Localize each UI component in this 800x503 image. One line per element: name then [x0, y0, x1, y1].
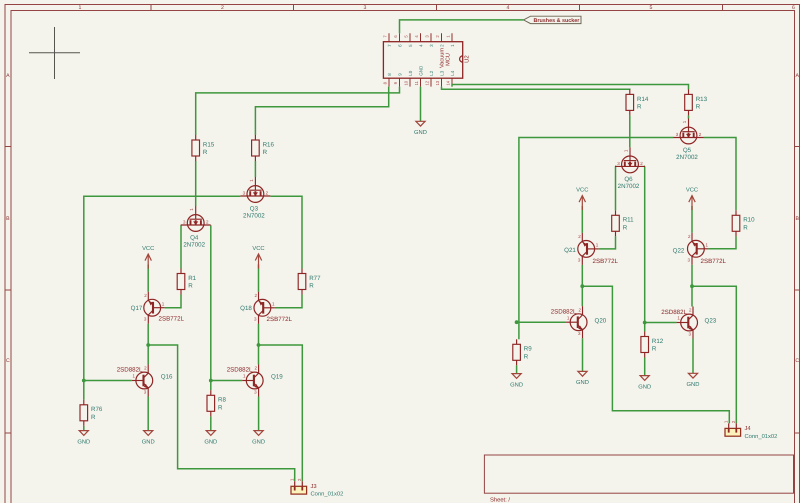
svg-text:GND: GND	[638, 383, 651, 390]
wire Q16 emitter to GND	[147, 397, 149, 431]
resistor R16	[252, 135, 275, 161]
wire U2 pin13 to R14	[442, 87, 630, 90]
wire R1 to Q17 base	[165, 295, 181, 308]
svg-text:R: R	[91, 414, 96, 421]
wire U2 pin11 to GND	[420, 87, 422, 122]
transistor Q17 2SB772L	[131, 292, 185, 324]
wire VCC to Q17 emitter	[147, 265, 149, 292]
junction Q20 base node	[515, 320, 519, 324]
svg-text:GND: GND	[252, 438, 265, 445]
transistor Q4 2N7002	[181, 206, 211, 249]
transistor Q5 2N7002	[674, 119, 704, 162]
svg-text:J4: J4	[745, 426, 752, 432]
svg-text:R13: R13	[696, 96, 708, 103]
wire Q6 source to Q23 base junction	[644, 166, 646, 322]
svg-text:Brushes & sucker: Brushes & sucker	[534, 18, 581, 24]
wire Q5 source to R10	[704, 138, 737, 211]
power GND R76	[77, 431, 90, 446]
wire Q22 collector to Q23 collector	[691, 265, 693, 307]
svg-text:J3: J3	[311, 483, 317, 490]
junction Q23 base node	[643, 321, 647, 325]
wire VCC to Q21 emitter	[581, 206, 583, 233]
svg-text:GND: GND	[576, 379, 589, 386]
wire R77 to Q18 base	[275, 295, 302, 308]
svg-text:R15: R15	[203, 141, 215, 148]
resistor R8	[207, 390, 226, 416]
svg-text:R14: R14	[637, 96, 649, 103]
svg-text:14: 14	[446, 80, 451, 85]
svg-text:R10: R10	[743, 217, 755, 224]
wire VCC to Q18 emitter	[258, 264, 260, 291]
svg-text:A: A	[795, 73, 799, 79]
power GND R8	[204, 431, 217, 446]
sheet origin cross marker	[29, 27, 80, 79]
wire U2 pin8 to R16	[255, 87, 388, 135]
resistor R11	[612, 210, 634, 236]
wire Q21 collector to Q20 collector	[581, 265, 583, 306]
svg-text:5: 5	[650, 5, 653, 11]
svg-text:3: 3	[364, 5, 367, 11]
resistor R77	[298, 269, 321, 295]
resistor R1	[177, 269, 196, 295]
svg-text:R11: R11	[623, 217, 634, 224]
wire R13 to Q5 gate	[688, 115, 690, 118]
wire junction to R76	[83, 381, 85, 400]
svg-text:A: A	[6, 73, 10, 79]
svg-text:GND: GND	[510, 381, 523, 388]
svg-text:C: C	[6, 358, 10, 364]
svg-text:GND: GND	[687, 381, 700, 388]
svg-text:B: B	[795, 216, 799, 222]
wire junction to R8	[210, 381, 212, 391]
power VCC Q17	[142, 245, 154, 269]
power GND Q16	[142, 431, 155, 446]
wire Q4 source to Q19 base junction	[210, 225, 212, 380]
svg-text:2SB772L: 2SB772L	[701, 258, 727, 265]
svg-text:1: 1	[79, 5, 82, 11]
resistor R13	[685, 89, 708, 115]
svg-text:11: 11	[414, 80, 419, 85]
wire bridge B output to J3 pin2	[259, 345, 303, 481]
svg-text:R: R	[263, 149, 268, 156]
svg-text:GND: GND	[142, 438, 155, 445]
transistor Q16 2SD882L	[117, 365, 173, 397]
power GND R9	[510, 374, 523, 389]
ic U2 Vacuum MCU	[383, 33, 471, 86]
svg-text:Conn_01x02: Conn_01x02	[311, 491, 344, 498]
power GND Q23	[687, 373, 700, 388]
transistor Q23 2SD882L	[661, 307, 717, 339]
svg-text:L4: L4	[450, 70, 455, 76]
wire R12 to GND	[644, 358, 646, 376]
svg-text:Q19: Q19	[271, 373, 283, 380]
power VCC Q22	[686, 186, 698, 210]
resistor R12	[641, 332, 664, 358]
svg-text:L3: L3	[439, 70, 444, 76]
svg-text:2N7002: 2N7002	[183, 242, 205, 249]
wire Q19 emitter to GND	[258, 397, 260, 431]
svg-text:R1: R1	[188, 275, 196, 282]
svg-text:Q5: Q5	[683, 147, 692, 154]
svg-text:12: 12	[425, 80, 430, 85]
svg-text:VCC: VCC	[142, 245, 154, 252]
svg-text:GND: GND	[414, 129, 427, 136]
svg-text:Q18: Q18	[240, 305, 252, 312]
wire U2 pin9 to R15	[196, 87, 400, 135]
wire Q4 drain to R1	[180, 225, 182, 268]
svg-text:Q3: Q3	[250, 206, 259, 213]
svg-text:Sheet: /: Sheet: /	[490, 497, 510, 503]
svg-text:R: R	[696, 104, 701, 111]
resistor R9	[513, 339, 532, 365]
svg-text:R: R	[743, 225, 748, 232]
svg-text:2SD882L: 2SD882L	[661, 309, 687, 316]
svg-text:Q4: Q4	[190, 235, 199, 242]
transistor Q6 2N7002	[615, 147, 645, 190]
wire junction to Q20 base	[519, 321, 566, 323]
svg-text:R76: R76	[91, 406, 103, 413]
frame column numbers	[79, 5, 796, 11]
svg-text:R: R	[652, 346, 657, 353]
svg-text:MCU: MCU	[445, 53, 451, 66]
svg-text:2SB772L: 2SB772L	[267, 316, 293, 323]
junction Q16 base node	[82, 379, 86, 383]
svg-text:VCC: VCC	[576, 186, 588, 193]
svg-text:R9: R9	[524, 346, 532, 353]
wire Q23 emitter to GND	[692, 339, 694, 374]
svg-text:R: R	[309, 283, 314, 290]
svg-text:GND: GND	[77, 438, 90, 445]
svg-text:VCC: VCC	[252, 245, 264, 252]
frame row letters right	[795, 73, 799, 364]
transistor Q22 2SB772L	[673, 233, 727, 265]
transistor Q21 2SB772L	[564, 233, 618, 265]
frame row letters left	[6, 73, 10, 364]
wire Q5 drain to Q20 base column	[519, 138, 674, 323]
svg-text:2N7002: 2N7002	[618, 183, 640, 190]
svg-text:B: B	[6, 216, 10, 222]
transistor Q18 2SB772L	[240, 292, 292, 324]
svg-text:13: 13	[435, 80, 440, 85]
svg-text:R12: R12	[652, 338, 664, 345]
svg-text:Q6: Q6	[624, 176, 633, 183]
wire R9 to GND	[516, 365, 518, 373]
power GND U2	[414, 121, 427, 136]
wire bridge A output to J3 pin1	[148, 345, 295, 481]
transistor Q20 2SD882L	[551, 306, 607, 338]
svg-text:Q20: Q20	[595, 317, 607, 324]
svg-text:R8: R8	[218, 397, 226, 404]
junction bridge C output	[580, 284, 584, 288]
wire bridge C output to J4 pin1	[582, 286, 729, 423]
wire VCC to Q22 emitter	[691, 206, 693, 233]
svg-text:R: R	[188, 283, 193, 290]
svg-text:2N7002: 2N7002	[676, 154, 698, 161]
wire junction to R9	[518, 322, 520, 339]
wire junction to R12	[644, 323, 646, 332]
wire R15 to Q4 gate	[195, 161, 197, 206]
svg-text:2SB772L: 2SB772L	[159, 316, 185, 323]
junction bridge A output	[146, 343, 150, 347]
svg-text:L0: L0	[408, 70, 413, 76]
resistor R14	[626, 89, 649, 115]
power GND R12	[638, 376, 651, 391]
svg-text:6: 6	[792, 5, 795, 11]
svg-text:Q16: Q16	[161, 373, 173, 380]
svg-text:R: R	[623, 225, 628, 232]
wire R14 to Q6 gate	[629, 115, 631, 147]
svg-text:2SD882L: 2SD882L	[551, 309, 577, 316]
svg-text:2: 2	[221, 5, 224, 11]
wire R11 to Q21 base	[599, 236, 616, 249]
power VCC Q21	[576, 186, 588, 210]
connector J4 Conn_01x02	[724, 420, 778, 440]
svg-text:R77: R77	[309, 275, 321, 282]
connector J3 Conn_01x02	[290, 478, 344, 498]
svg-text:R: R	[524, 354, 529, 361]
title block	[484, 455, 793, 503]
wire R16 to Q3 gate	[254, 161, 256, 177]
wire R76 to GND	[83, 426, 85, 431]
svg-text:2SD882L: 2SD882L	[227, 367, 253, 374]
wire Q18 collector to Q19 collector	[258, 324, 260, 365]
wire U2 pin14 to R13	[452, 85, 689, 90]
svg-text:Q23: Q23	[705, 318, 717, 325]
svg-text:R: R	[218, 405, 223, 412]
svg-text:L2: L2	[429, 70, 434, 76]
wire R8 to GND	[210, 416, 212, 430]
resistor R76	[80, 400, 103, 426]
svg-text:Q22: Q22	[673, 248, 685, 255]
wire junction to Q23 base	[645, 322, 677, 324]
junction Q19 base node	[209, 379, 213, 383]
power GND Q19	[252, 431, 265, 446]
wire Q20 emitter to GND	[582, 338, 584, 371]
svg-text:4: 4	[507, 5, 510, 11]
svg-text:C: C	[795, 358, 799, 364]
svg-text:10: 10	[404, 80, 409, 85]
wire Q3 drain to Q16 base column	[84, 196, 241, 380]
svg-text:Q21: Q21	[564, 247, 576, 254]
transistor Q19 2SD882L	[227, 365, 284, 397]
svg-text:GND: GND	[418, 65, 423, 76]
svg-text:Conn_01x02: Conn_01x02	[745, 433, 778, 440]
wire Q17 collector to Q16 collector	[147, 324, 149, 365]
wire junction to Q19 base	[211, 380, 242, 382]
wire junction to Q16 base	[84, 380, 132, 382]
hierarchical label Brushes &amp; sucker	[524, 16, 582, 24]
svg-text:R16: R16	[263, 141, 275, 148]
svg-text:VCC: VCC	[686, 186, 698, 193]
resistor R10	[732, 210, 755, 236]
svg-text:2SB772L: 2SB772L	[593, 258, 619, 265]
svg-text:R: R	[203, 149, 208, 156]
transistor Q3 2N7002	[240, 177, 270, 220]
svg-text:GND: GND	[204, 438, 217, 445]
svg-text:2N7002: 2N7002	[243, 213, 265, 220]
power GND Q20	[576, 371, 589, 386]
wire Q3 source to R77	[270, 196, 302, 268]
resistor R15	[192, 135, 215, 161]
svg-text:Q17: Q17	[131, 305, 143, 312]
svg-text:R: R	[637, 104, 642, 111]
junction bridge D output	[690, 284, 694, 288]
wire Q6 drain to R11	[614, 166, 617, 210]
wire U2 pin6 to Brushes &amp; sucker label	[400, 20, 524, 33]
power VCC Q18	[252, 245, 264, 269]
junction bridge B output	[257, 343, 261, 347]
wire R10 to Q22 base	[708, 236, 736, 249]
svg-text:U2: U2	[464, 55, 471, 63]
wire bridge D output to J4 pin2	[692, 286, 736, 423]
svg-text:2SD882L: 2SD882L	[117, 367, 143, 374]
